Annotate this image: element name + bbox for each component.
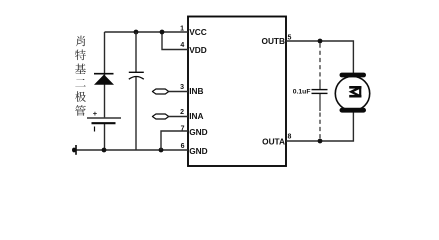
wire: dashed branch upper <box>319 44 321 84</box>
battery BT1 minus tick <box>94 127 96 132</box>
wire: capacitor C2 bottom lead <box>319 93 321 111</box>
connector oval INA <box>152 114 168 119</box>
IC U1 body <box>188 17 286 167</box>
capacitor C1 top plate <box>129 71 144 73</box>
wire: capacitor C1 branch lower <box>135 77 137 150</box>
node: junction OUTA dashed branch <box>318 139 323 144</box>
wire: INB pin3 <box>169 91 188 93</box>
wire: OUTA pin8 net <box>286 112 353 142</box>
svg-text:INB: INB <box>189 86 203 96</box>
motor M1 circle <box>335 76 369 110</box>
wire: OUTB pin5 net <box>286 41 353 73</box>
motor M1 letter M (rotated, drawn as paths) <box>349 86 361 98</box>
svg-text:VDD: VDD <box>189 45 207 55</box>
wire: dashed branch lower <box>319 113 321 140</box>
svg-text:3: 3 <box>180 84 184 91</box>
motor M1 top brush bar <box>340 73 367 78</box>
terminal: left connector dot <box>72 148 76 153</box>
wire: capacitor C1 branch upper <box>135 32 137 72</box>
svg-text:INA: INA <box>189 111 203 121</box>
svg-text:OUTB: OUTB <box>261 36 285 46</box>
svg-text:7: 7 <box>181 126 185 133</box>
node: junction top capacitor <box>134 30 139 35</box>
node: junction bottom pin7 branch <box>159 148 164 153</box>
svg-text:+: + <box>93 109 98 118</box>
wire: diode/battery branch upper <box>104 32 106 117</box>
capacitor C1 curved bottom plate <box>129 77 144 80</box>
wire: capacitor C2 top lead <box>319 84 321 90</box>
svg-text:GND: GND <box>189 146 207 156</box>
wire: INA pin2 <box>169 116 188 118</box>
svg-text:0.1uF: 0.1uF <box>293 89 311 96</box>
wire: ground/bottom net <box>76 149 188 151</box>
svg-text:4: 4 <box>180 42 184 49</box>
battery BT1 bottom plate <box>92 122 116 124</box>
svg-text:5: 5 <box>288 34 292 41</box>
capacitor C2 top plate <box>312 89 328 91</box>
motor M1 bottom brush bar <box>340 108 367 113</box>
svg-text:VCC: VCC <box>189 27 207 37</box>
wire: VCC top net <box>105 31 189 33</box>
svg-text:8: 8 <box>288 134 292 141</box>
wire: GND pin7 branch <box>161 131 188 150</box>
battery BT1 top plate <box>87 117 121 119</box>
wire: VDD branch <box>162 32 188 50</box>
wire: diode/battery branch lower <box>104 124 106 150</box>
terminal: left connector bar <box>75 145 77 155</box>
svg-text:GND: GND <box>189 127 207 137</box>
node: junction OUTB dashed branch <box>318 39 323 44</box>
node: junction top VDD branch <box>160 30 165 35</box>
svg-text:OUTA: OUTA <box>262 136 285 146</box>
svg-text:6: 6 <box>181 143 185 150</box>
node: junction bottom battery branch <box>102 148 107 153</box>
svg-text:2: 2 <box>180 109 184 116</box>
diode D1 cathode bar <box>94 73 114 75</box>
svg-text:1: 1 <box>180 25 184 32</box>
label: Schottky diode Chinese text 肖特基二极管 <box>75 36 86 116</box>
capacitor C2 bottom plate <box>312 92 328 94</box>
connector oval INB <box>152 89 168 94</box>
diode D1 triangle <box>94 75 114 85</box>
